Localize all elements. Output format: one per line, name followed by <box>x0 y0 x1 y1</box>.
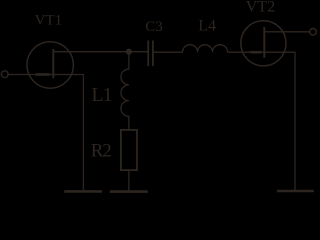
svg-text:L1: L1 <box>91 84 111 106</box>
svg-text:VT2: VT2 <box>246 0 275 15</box>
svg-text:VT1: VT1 <box>35 12 63 28</box>
svg-text:L4: L4 <box>198 17 216 34</box>
svg-text:R2: R2 <box>91 140 111 161</box>
svg-text:C3: C3 <box>145 19 163 35</box>
